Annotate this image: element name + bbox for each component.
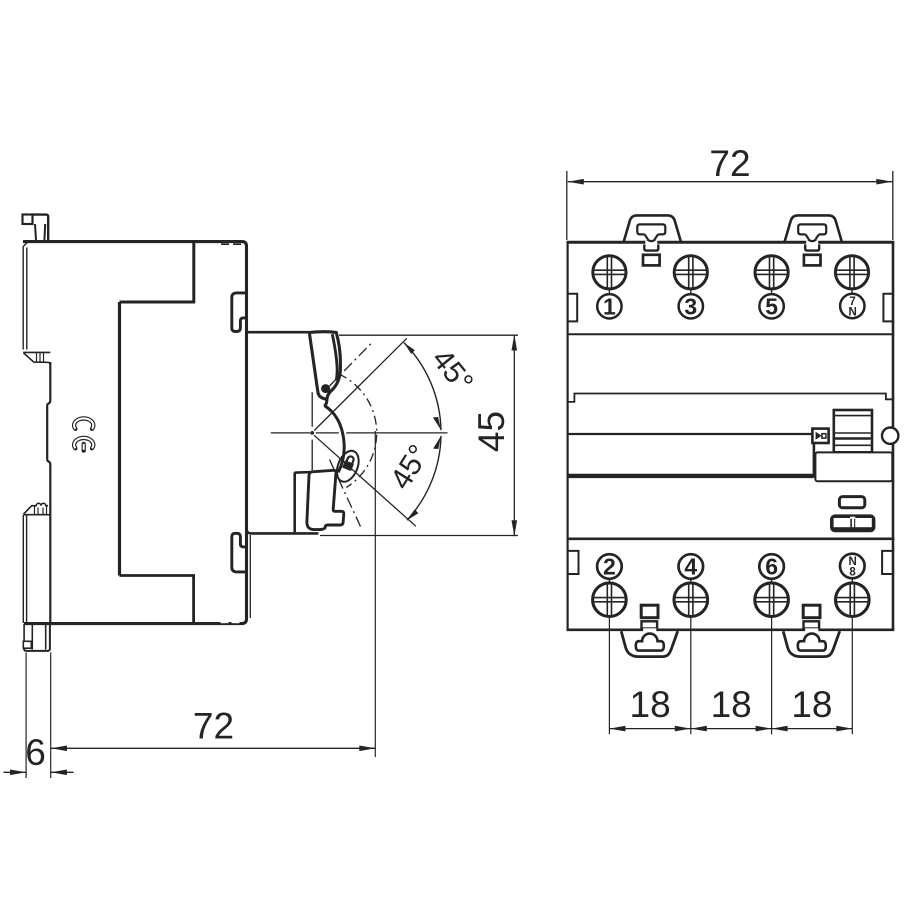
side view toggle panel bottom plate and recess (247, 472, 318, 533)
side view front internal edge (118, 302, 121, 576)
front view top clip 1 (624, 215, 681, 265)
front view toggle grip (834, 410, 872, 452)
svg-text:45: 45 (471, 411, 512, 452)
side view back rail double line lower (23, 515, 26, 623)
front view pivot box (812, 429, 828, 443)
svg-text:8: 8 (849, 566, 856, 578)
side view top terminal hook (232, 293, 247, 332)
svg-text:72: 72 (193, 706, 234, 747)
front view dim 72 top (567, 171, 893, 240)
blade axis dash-dot lines (330, 342, 374, 387)
svg-text:1: 1 (603, 293, 616, 319)
side view rail recess front edge with jogs (47, 362, 50, 506)
front view dims 18 (609, 617, 852, 735)
svg-text:5: 5 (765, 293, 778, 319)
front view bottom clip 2 (783, 605, 840, 656)
side view handle down blade (307, 470, 344, 529)
side view body outline (23, 242, 247, 624)
lower angle arc (407, 436, 441, 520)
side view internal seam upper (120, 242, 194, 302)
front view divider line 3 (567, 537, 895, 540)
svg-text:72: 72 (709, 143, 750, 184)
front view body outline (566, 242, 568, 630)
side view top rail foot (23, 352, 50, 365)
side view handle up blade (309, 332, 340, 400)
trajectory arc (339, 374, 377, 488)
side view back rail double line upper (23, 247, 27, 350)
front view divider line 1 (568, 333, 893, 335)
front view switch base (815, 452, 892, 481)
front view pole numbers top (597, 289, 864, 319)
front view test button (830, 514, 875, 532)
side view padlock ellipse (333, 448, 363, 485)
svg-text:3: 3 (684, 293, 697, 319)
svg-text:N: N (848, 306, 856, 318)
svg-text:2: 2 (603, 554, 616, 580)
front view side circle (882, 428, 898, 444)
upper angle arc (404, 343, 441, 431)
side view CE mark (74, 418, 93, 450)
side view internal seam lower (120, 576, 194, 624)
bottom dimension 72 (26, 431, 375, 778)
front view label window (839, 497, 864, 508)
front view bottom clip 1 (621, 605, 678, 656)
front view divider line 2 (568, 433, 813, 435)
side view bottom DIN latch (24, 624, 46, 650)
front view bottom screws (593, 583, 869, 617)
svg-text:6: 6 (765, 554, 778, 580)
front view side notches (568, 294, 578, 322)
front view top screws (593, 256, 869, 289)
centerline horizontal (271, 432, 448, 434)
svg-text:18: 18 (711, 684, 752, 725)
svg-text:6: 6 (25, 732, 46, 773)
45 deg construction line down (314, 435, 416, 526)
vertical dimension 45 (320, 335, 518, 535)
side view bottom rail foot (23, 503, 50, 514)
bottom dimension 6 (4, 771, 74, 773)
front view stepped divider (568, 394, 893, 402)
svg-text:18: 18 (630, 684, 671, 725)
side view front clip edge lower (49, 505, 51, 623)
side view top edge tick marks (221, 243, 241, 245)
front view thick divider (568, 474, 813, 478)
side view toggle panel top plate (245, 331, 309, 334)
side view bottom edge white dashes (221, 621, 229, 623)
svg-text:4: 4 (684, 554, 697, 580)
side view bottom terminal hook (232, 533, 247, 572)
centerline vertical (311, 392, 313, 470)
side view top DIN clip (23, 215, 33, 225)
45 deg construction line up (314, 338, 407, 430)
front view pole numbers bottom (597, 554, 864, 584)
side view panel face curve (325, 399, 344, 472)
side view inner face line (249, 535, 251, 618)
front view top clip 2 (785, 215, 842, 265)
svg-text:18: 18 (791, 684, 832, 725)
